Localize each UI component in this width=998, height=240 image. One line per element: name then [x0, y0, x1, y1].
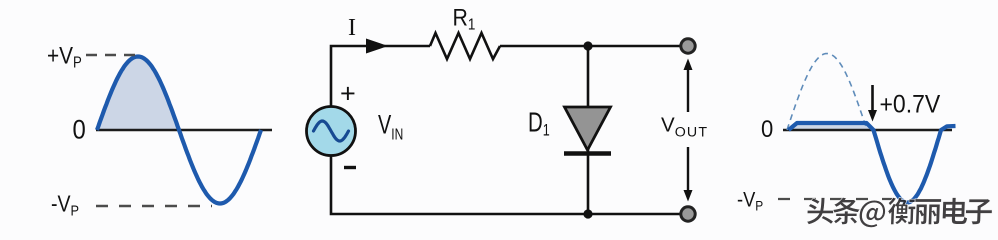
- wire top (source to output): [331, 46, 430, 131]
- svg-text:+: +: [340, 79, 356, 109]
- Vout down arrow: [687, 147, 689, 192]
- svg-text:0: 0: [761, 115, 773, 142]
- watermark logo text: [807, 197, 993, 227]
- svg-text:-VP: -VP: [737, 188, 763, 214]
- 0.7V marker arrow: [871, 85, 874, 112]
- svg-text:D1: D1: [528, 108, 550, 140]
- source sine symbol: [314, 121, 349, 141]
- input waveform axis line: [96, 129, 272, 132]
- Vout up arrow: [687, 68, 689, 112]
- wire diode branch: [587, 46, 590, 214]
- svg-text:0: 0: [73, 115, 86, 144]
- svg-text:VIN: VIN: [378, 110, 403, 143]
- svg-text:+0.7V: +0.7V: [880, 91, 941, 119]
- wire top right of resistor: [500, 45, 688, 48]
- diode cathode bar: [564, 151, 611, 156]
- AC source V1: [307, 107, 356, 156]
- +Vp dashed level line: [86, 54, 138, 56]
- output ghost dashed sine peak: [787, 54, 867, 131]
- output terminal bottom: [681, 207, 695, 221]
- input waveform shaded positive half: [97, 57, 179, 131]
- junction dot top: [583, 41, 592, 50]
- output terminal top: [681, 39, 695, 53]
- output waveform axis line: [783, 129, 952, 132]
- resistor R1: [430, 33, 500, 59]
- current arrow: [366, 39, 388, 54]
- junction dot bottom: [583, 209, 592, 218]
- wire bottom: [331, 131, 688, 214]
- output waveform shaded clip region: [790, 124, 873, 129]
- minus sign: [344, 166, 356, 169]
- svg-text:VOUT: VOUT: [661, 114, 708, 141]
- diode D1: [565, 107, 611, 150]
- svg-text:R1: R1: [453, 3, 476, 34]
- svg-text:-VP: -VP: [51, 191, 79, 219]
- svg-text:+VP: +VP: [47, 41, 82, 72]
- input waveform sine curve: [97, 57, 261, 204]
- output clipped waveform: [789, 123, 956, 203]
- svg-text:I: I: [348, 15, 356, 41]
- -Vp dashed level line: [96, 205, 212, 207]
- -Vp dashed level line (output): [778, 198, 905, 200]
